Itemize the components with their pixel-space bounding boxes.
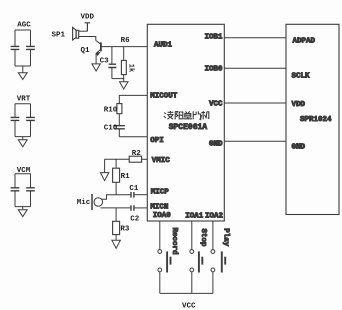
wire IOA1 down (191, 221, 193, 250)
wire speaker bottom to Q1 collector (79, 37, 96, 41)
resistor 1k (121, 47, 126, 82)
wire R2 left to ground (105, 159, 130, 172)
svg-text:MICN: MICN (150, 204, 168, 212)
svg-text:Record: Record (170, 228, 178, 255)
wire R1 to MICP wire (115, 182, 117, 194)
switch S3 Play (211, 250, 225, 273)
wire mic top to C1 (MICP) (102, 195, 132, 200)
transistor Q1 (96, 41, 101, 64)
capacitor C3 (108, 47, 116, 79)
ground arrow below 1k (120, 82, 129, 89)
svg-text:C10: C10 (104, 125, 118, 133)
wire VCC rail (160, 292, 213, 294)
wire C1 to MICP pin (134, 194, 147, 196)
svg-text:IOB1: IOB1 (205, 34, 224, 42)
svg-text:Q1: Q1 (81, 47, 91, 55)
capacitor C1 (131, 192, 134, 198)
svg-text:AGC: AGC (17, 22, 31, 30)
svg-text:Mic: Mic (77, 199, 91, 207)
svg-text:VDD: VDD (81, 14, 95, 22)
wire S2 to rail (191, 272, 193, 294)
svg-text:R10: R10 (104, 106, 118, 114)
svg-text:GND: GND (292, 144, 306, 152)
wire mic bottom to C2 (MICN) (101, 207, 132, 209)
svg-text:VRT: VRT (17, 96, 31, 104)
svg-text:GND: GND (209, 140, 223, 148)
wire IOA0 down (159, 221, 161, 250)
wire VMIC to R2 (142, 158, 148, 160)
wire C2 to MICN pin (134, 207, 147, 209)
wire IOB1 to ADPAD (224, 37, 286, 39)
svg-text:MICP: MICP (151, 188, 170, 196)
svg-text:VDD: VDD (292, 101, 306, 109)
svg-text:C1: C1 (129, 185, 139, 193)
ground arrow VMIC net (100, 173, 108, 181)
svg-text:R1: R1 (121, 173, 131, 181)
svg-text:VCC: VCC (182, 303, 196, 310)
ground arrow Q1 emitter (92, 64, 100, 71)
wire junction to R3 (115, 208, 117, 221)
svg-text:Play: Play (221, 228, 229, 247)
capacitor pair VCM (11, 174, 35, 210)
svg-text:Stop: Stop (199, 229, 207, 248)
svg-text:MICOUT: MICOUT (150, 93, 178, 101)
wire R10 to C10 (118, 114, 120, 126)
wire GND to GND (224, 140, 286, 142)
svg-text:VMIC: VMIC (152, 157, 171, 165)
switch S1 Record (158, 250, 171, 273)
svg-text:IOB0: IOB0 (205, 66, 224, 74)
power VDD symbol (85, 23, 91, 31)
wire S3 to rail (212, 272, 214, 294)
wire IOA2 down (212, 221, 214, 250)
svg-text:AUD1: AUD1 (154, 42, 173, 50)
chip U1 SPCE061A box (147, 24, 224, 221)
wire speaker top to VDD (79, 30, 88, 32)
svg-text:OPI: OPI (150, 137, 164, 145)
resistor R1 (113, 168, 120, 182)
wire junction to R1 (115, 159, 117, 168)
svg-text:C2: C2 (130, 215, 140, 223)
resistor R10 (117, 104, 122, 114)
svg-text:SCLK: SCLK (292, 73, 311, 81)
svg-text:R3: R3 (120, 225, 130, 233)
svg-text:SP1: SP1 (52, 32, 66, 40)
chip name chinese 凌阳单片机 (164, 111, 209, 120)
resistor R2 (129, 156, 141, 162)
ground arrow VRT (18, 140, 27, 147)
capacitor C2 (131, 205, 134, 211)
speaker SP1 (73, 27, 79, 40)
wire MICOUT to R10 (119, 95, 147, 103)
wire IOB0 to SCLK (224, 67, 286, 69)
switch S2 Stop (190, 250, 202, 273)
svg-text:R6: R6 (121, 37, 131, 45)
svg-text:IOA1: IOA1 (185, 212, 204, 220)
wire AUD1 (Q1 base to chip) (101, 46, 147, 48)
svg-text:SPR1024: SPR1024 (300, 116, 332, 124)
wire S1 to rail (159, 272, 161, 294)
svg-text:R2: R2 (132, 150, 142, 158)
svg-text:C3: C3 (100, 58, 110, 66)
svg-text:IOA2: IOA2 (205, 212, 224, 220)
wire C10 to OPI (119, 129, 147, 137)
ground arrow R3 (112, 240, 121, 248)
capacitor pair AGC (11, 30, 35, 73)
capacitor C10 (114, 126, 125, 129)
svg-text:VCC: VCC (209, 101, 223, 109)
ground arrow VCM (18, 210, 27, 217)
microphone MIC (92, 194, 103, 210)
resistor R3 (113, 221, 120, 234)
right box SPR1024 (286, 24, 339, 214)
ground arrow AGC (18, 73, 27, 80)
capacitor pair VRT (11, 104, 35, 140)
svg-text:SPCE061A: SPCE061A (169, 123, 208, 132)
svg-text:ADPAD: ADPAD (293, 38, 316, 46)
svg-text:1k: 1k (127, 64, 135, 72)
svg-text:IOA0: IOA0 (153, 212, 172, 220)
wire R3 to ground (115, 235, 117, 241)
wire C3 bottom to resistor bottom (112, 78, 124, 80)
wire VCC to VDD (224, 102, 286, 104)
